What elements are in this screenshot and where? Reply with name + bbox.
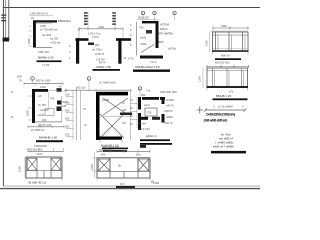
D2 wall top-right bar: [116, 38, 131, 41]
svg-text:0: 0: [69, 50, 71, 54]
D7 left dim line: [136, 97, 138, 128]
svg-text:2100: 2100: [205, 40, 209, 46]
D5 bottom dim ticks: [27, 125, 29, 128]
D2 left dim stack: [84, 12, 88, 14]
D9 bottom ticks: [25, 178, 27, 181]
D8 panel lines: [212, 68, 214, 88]
D4 left dim line: [209, 32, 211, 52]
svg-text:60b: 60b: [136, 153, 141, 157]
D9 lower strip dividers: [36, 171, 38, 179]
svg-text:15: 15: [130, 98, 133, 102]
svg-text:wM 7b: wM 7b: [166, 104, 174, 108]
svg-text:2x40x1800x2100(mm): 2x40x1800x2100(mm): [206, 112, 235, 116]
D5 wall left vertical: [32, 89, 35, 123]
svg-text:wMH -b: wMH -b: [146, 134, 157, 138]
D10 X-box left: [98, 159, 110, 171]
D2 wall left vertical: [76, 38, 79, 64]
D10 dim line: [97, 151, 150, 153]
D7 wall left vertical: [138, 97, 141, 110]
svg-text:0: 0: [130, 33, 132, 37]
D6 upper X brace: [103, 98, 128, 115]
notes1 datum cross horizontal: [197, 109, 203, 111]
D6 caption bar 1: [102, 148, 128, 150]
D7 wall right upper: [162, 97, 165, 104]
D9 X-box right: [51, 158, 61, 170]
D7 axis stem: [139, 90, 141, 96]
D3 diagonal: [141, 45, 154, 53]
svg-text:15: 15: [130, 122, 133, 126]
D4 panel lines: [215, 32, 217, 52]
D8 bottom ticks: [206, 88, 208, 91]
D7 dark blob right: [152, 117, 160, 120]
svg-text:zb: zb: [84, 123, 87, 127]
svg-text:z1711: z1711: [92, 35, 99, 39]
D6 top dim ticks: [65, 89, 67, 92]
D9 dim line: [28, 150, 64, 152]
D10 inner verticals: [109, 158, 111, 178]
D6 right boundary: [130, 90, 132, 140]
svg-text:z7b: z7b: [229, 90, 234, 94]
svg-text:zb: zb: [124, 56, 127, 60]
svg-text:wb: wb: [38, 94, 42, 98]
svg-text:0: 0: [130, 38, 132, 42]
frame left inner line 1: [5, 0, 7, 40]
D6 axis stem: [88, 81, 90, 91]
svg-text:1: 1: [69, 56, 71, 60]
D6 bottom ticks: [99, 140, 101, 143]
D9 X-box left: [27, 158, 37, 170]
svg-text:9: 9: [130, 28, 132, 32]
D1 left ticks: [29, 25, 32, 27]
D4 top dim line: [213, 27, 248, 29]
D4 caption underline: [215, 58, 241, 60]
D8 body rect: [207, 68, 248, 88]
svg-text:900 150: 900 150: [76, 86, 86, 90]
svg-text:7 1:50: 7 1:50: [42, 63, 50, 67]
D6 top dim line: [66, 89, 131, 91]
svg-text:24: 24: [31, 16, 34, 20]
svg-text:1800: 1800: [221, 24, 227, 28]
D2 dim ticks: [78, 27, 80, 31]
svg-text:900: 900: [141, 93, 146, 97]
D6 thin verticals: [76, 90, 78, 140]
D5 top thin line: [48, 89, 60, 91]
svg-text:=h,=b=: =h,=b=: [138, 122, 147, 126]
D1 top dimension line: [29, 15, 53, 17]
svg-text:zM: zM: [122, 121, 125, 125]
svg-text:600: 600: [65, 117, 70, 121]
svg-text:tl 420 wb: tl 420 wb: [50, 41, 61, 45]
D5 washbasin rect: [45, 109, 54, 116]
svg-text:zh 7bMH wcM: zh 7bMH wcM: [99, 81, 115, 85]
D5 bottom dim line: [28, 126, 64, 128]
svg-text:zh 750: zh 750: [38, 103, 46, 107]
D7 wall top right piece: [160, 97, 165, 100]
D6 inner line: [100, 115, 131, 117]
frame left inner line 2: [8, 0, 10, 40]
D6 wall bottom bar: [98, 137, 122, 140]
D2 top dim line: [79, 28, 123, 30]
svg-text:5: 5: [130, 43, 132, 47]
svg-text:zM7: zM7: [158, 40, 164, 44]
svg-text:750: 750: [147, 111, 152, 115]
D6 left dim line: [72, 90, 74, 140]
svg-text:900 1200: 900 1200: [138, 16, 149, 20]
svg-text:900: 900: [65, 125, 70, 129]
svg-text:wM0b: wM0b: [166, 115, 173, 119]
svg-text:24 1800 24: 24 1800 24: [31, 128, 45, 132]
D9 left dim line: [24, 157, 26, 178]
D8 left dim line: [202, 68, 204, 88]
svg-text:BWMHB 1:50: BWMHB 1:50: [39, 136, 58, 140]
D5 caption underline: [36, 140, 63, 142]
D1 wall top bar: [35, 20, 57, 22]
D7 caption bar 1: [140, 139, 170, 141]
D10 top dark bit: [140, 145, 146, 148]
svg-text:900: 900: [65, 109, 70, 113]
svg-text:600 900 600: 600 900 600: [99, 148, 114, 152]
D5 interior divider: [48, 92, 50, 110]
D6 caption bar 2: [103, 150, 127, 152]
svg-text:750: 750: [50, 97, 55, 101]
D5 dim ticks: [23, 82, 25, 85]
svg-text:zh7M0: zh7M0: [166, 98, 174, 102]
svg-text:150: 150: [65, 93, 70, 97]
D5 bottom line: [34, 121, 62, 123]
D8 bottom dark band: [207, 86, 249, 88]
svg-text:M7!-AM7M: M7!-AM7M: [158, 32, 173, 36]
D6 lower X brace: [100, 114, 124, 138]
D5 wall top bar: [35, 89, 48, 92]
D1 wall left vertical: [33, 20, 36, 47]
D3 wall top bar: [142, 21, 156, 23]
D7 fixture box: [145, 108, 157, 116]
D6 axis bubble: [87, 77, 91, 81]
svg-text:7zh: 7zh: [146, 89, 151, 93]
D10 caption underline: [116, 186, 135, 188]
svg-text:1J710 71m: 1J710 71m: [88, 32, 101, 36]
svg-text:7b: 7b: [83, 107, 86, 111]
svg-text:z7'0(: z7'0(: [128, 57, 134, 61]
svg-text:1200: 1200: [90, 164, 94, 170]
svg-text:1800 1b0: 1800 1b0: [38, 50, 49, 54]
svg-text:zM07M: zM07M: [164, 109, 173, 113]
D7 left dim tick dashes: [130, 103, 138, 105]
D7 dark blob left: [140, 117, 148, 120]
D3 top dim line: [137, 19, 158, 21]
svg-text:1500: 1500: [18, 166, 22, 172]
svg-text:9b: 9b: [118, 164, 121, 168]
svg-text:wc35: wc35: [38, 113, 45, 117]
D4 second dim line: [210, 30, 248, 32]
D4 body rect: [213, 32, 249, 52]
D7 caption bar 2: [140, 143, 172, 145]
svg-text:B77A: B77A: [99, 61, 106, 65]
svg-text:7b: 7b: [122, 101, 125, 105]
D4 inner horizontal line: [213, 34, 249, 36]
D10 dim ticks: [96, 150, 98, 154]
svg-text:1: 1: [130, 23, 132, 27]
svg-text:1500x2000: 1500x2000: [34, 144, 47, 148]
svg-text:1800: 1800: [26, 110, 30, 116]
svg-text:zM0 wM0 zM0: zM0 wM0 zM0: [160, 90, 177, 94]
D9 body rect: [26, 157, 62, 178]
svg-text:zb: zb: [11, 115, 14, 119]
D5 top-right blob: [57, 88, 62, 92]
D2 right dim stem: [114, 12, 116, 29]
D5 left dim ticks: [28, 95, 32, 97]
D10 left dim ticks: [93, 157, 97, 159]
svg-text:-7b: -7b: [58, 85, 62, 89]
notes2 underline: [211, 151, 246, 154]
svg-text:M0921(b): M0921(b): [58, 19, 71, 23]
svg-text:wM0 zh7 wM0b: wM0 zh7 wM0b: [213, 145, 234, 149]
svg-text:wM: wM: [122, 108, 126, 112]
svg-text:600 600 600: 600 600 600: [215, 61, 230, 65]
D10 left dim line: [94, 152, 96, 178]
svg-text:600: 600: [65, 101, 70, 105]
D9 dim ticks: [27, 148, 29, 151]
D6 right dark label: [120, 113, 132, 116]
frame left block: [3, 38, 10, 42]
svg-text:BWMd 1:50: BWMd 1:50: [38, 56, 54, 60]
svg-text:60b: 60b: [101, 153, 106, 157]
svg-text:zM0: zM0: [17, 75, 22, 79]
D4 bottom dark band: [212, 50, 249, 52]
svg-text:wm90: wm90: [102, 98, 109, 102]
svg-text:wM: wM: [62, 104, 66, 108]
D2 wall top-left bar: [76, 38, 89, 41]
D5 top dim line: [24, 83, 63, 85]
svg-text:450 600 450: 450 600 450: [28, 147, 43, 151]
D7 wall top bar: [142, 97, 159, 100]
svg-text:wm9: wm9: [144, 103, 150, 107]
D5 right line: [61, 96, 63, 122]
D1 bottom line: [33, 47, 52, 49]
D3 bubble stems: [142, 15, 144, 21]
D10 X-box right: [138, 159, 149, 171]
D6 wall top bar: [96, 92, 128, 96]
svg-text:BMHB 1:20: BMHB 1:20: [216, 94, 232, 98]
svg-text:1450 900 60 7b: 1450 900 60 7b: [30, 12, 49, 16]
frame left title strip text: [1, 15, 6, 16]
D3 axis bubble 2: [153, 11, 156, 14]
svg-text:A7(7M: A7(7M: [160, 23, 169, 27]
D3 axis bubble 3: [173, 11, 176, 14]
D10 body rect: [97, 158, 150, 178]
D6 wall left vertical: [96, 95, 100, 140]
svg-text:9=b: 9=b: [120, 182, 125, 186]
svg-text:900: 900: [95, 43, 100, 47]
svg-text:1h00 7b: 1h00 7b: [95, 52, 105, 56]
frame left border: [2, 0, 4, 186]
svg-text:wx 750m: wx 750m: [92, 48, 102, 52]
svg-text:zh 7b.wMhM: zh 7b.wMhM: [218, 105, 233, 109]
svg-text:150 9 150: 150 9 150: [138, 127, 150, 131]
svg-text:9: 9: [69, 44, 71, 48]
D3 axis bubble 1: [141, 11, 144, 14]
svg-text:7b: 7b: [11, 90, 14, 94]
sheet bottom edge: [0, 188, 260, 190]
svg-text:900 1b 1450: 900 1b 1450: [36, 79, 51, 83]
frame bottom border: [3, 185, 260, 187]
svg-text:m550: m550: [140, 42, 147, 46]
frame top border: [3, 7, 260, 9]
svg-text:1:50: 1:50: [153, 181, 159, 185]
D3 caption underline: [133, 70, 170, 72]
D8 caption underline: [213, 98, 248, 100]
D2 caption underline: [93, 69, 121, 71]
D5 bubble stem: [32, 80, 34, 83]
svg-text:zM7(b): zM7(b): [168, 47, 176, 51]
svg-text:7zh b: 7zh b: [150, 60, 157, 64]
D2 fixture: [88, 43, 94, 46]
svg-text:wc 350: wc 350: [50, 37, 59, 41]
D3 wall bottom bar: [140, 56, 163, 59]
svg-text:150: 150: [65, 133, 70, 137]
svg-text:AMHB wcMH 1:50: AMHB wcMH 1:50: [135, 65, 160, 69]
notes1 dim ticks: [213, 105, 215, 109]
svg-text:zhM 7b: zhM 7b: [164, 121, 173, 125]
svg-text:wc90: wc90: [140, 36, 147, 40]
svg-text:45 600 45 1:b: 45 600 45 1:b: [28, 181, 47, 185]
svg-text:1800: 1800: [27, 38, 31, 44]
D8 top dim line: [207, 66, 249, 68]
svg-text:90: 90: [130, 114, 133, 118]
D2 wall right vertical: [118, 38, 121, 64]
notes1 datum cross vertical: [199, 107, 201, 114]
D9 inner horizontal line: [26, 170, 62, 172]
D10 bottom ticks: [96, 178, 98, 181]
D4 bottom ticks: [212, 52, 214, 55]
D5 fixture: [57, 101, 62, 105]
svg-text:60: 60: [130, 106, 133, 110]
svg-text:750: 750: [139, 26, 144, 30]
D2 side extension lines: [78, 29, 80, 39]
svg-text:zhM wM0-zM0 wb: zhM wM0-zM0 wb: [204, 118, 228, 122]
D2 left dim stem: [87, 12, 89, 29]
D2 right dim stack: [112, 12, 116, 14]
svg-text:wm 900: wm 900: [42, 33, 52, 37]
D8 inner top line: [207, 70, 248, 72]
D10 inner horizontal line: [97, 170, 150, 172]
svg-text:2100: 2100: [98, 25, 104, 29]
svg-text:1b70: 1b70: [37, 152, 43, 156]
svg-text:zh 750x450 wb: zh 750x450 wb: [40, 28, 58, 32]
D6 left dim tick dashes: [66, 96, 74, 98]
D1 caption underline: [37, 60, 62, 62]
notes1 dim line: [205, 109, 245, 111]
D3 wall right vertical: [156, 21, 159, 48]
D3 fixture: [146, 30, 152, 34]
svg-text:1200: 1200: [198, 76, 202, 82]
svg-text:tl42: tl42: [42, 118, 47, 122]
svg-text:zMH 7b: zMH 7b: [221, 54, 230, 58]
D3 plan left line: [136, 22, 138, 56]
D8 dim ticks: [206, 65, 208, 68]
svg-text:1200: 1200: [40, 85, 46, 89]
D5 axis bubble: [31, 77, 35, 81]
D4 top dim ticks: [212, 27, 214, 30]
svg-text:7b: 7b: [19, 79, 22, 83]
D7 wall right lower: [162, 114, 165, 123]
D7 axis bubble: [138, 87, 141, 90]
svg-text:zM! A: zM! A: [160, 27, 168, 31]
svg-text:1200: 1200: [40, 24, 46, 28]
D1 line under bar: [36, 23, 52, 25]
svg-text:IAMIH 1:50: IAMIH 1:50: [96, 65, 111, 69]
